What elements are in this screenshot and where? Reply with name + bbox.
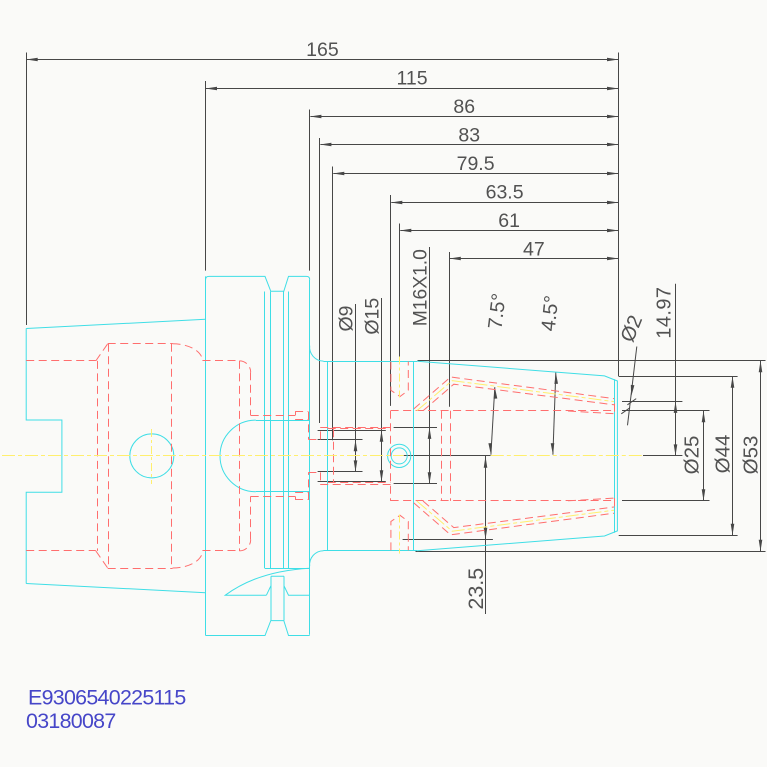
svg-text:86: 86 (453, 96, 475, 118)
svg-text:03180087: 03180087 (26, 709, 116, 733)
svg-text:Ø53: Ø53 (739, 436, 762, 475)
svg-text:63.5: 63.5 (486, 182, 524, 204)
svg-text:79.5: 79.5 (457, 153, 495, 175)
svg-text:61: 61 (498, 210, 520, 232)
svg-text:Ø44: Ø44 (712, 435, 735, 474)
svg-text:Ø9: Ø9 (335, 305, 357, 331)
svg-text:165: 165 (306, 39, 339, 61)
svg-text:Ø25: Ø25 (680, 436, 703, 475)
svg-text:23.5: 23.5 (464, 568, 488, 610)
svg-text:4.5°: 4.5° (538, 294, 564, 332)
svg-text:E9306540225115: E9306540225115 (28, 686, 186, 710)
svg-text:115: 115 (396, 68, 427, 90)
svg-text:83: 83 (458, 125, 480, 147)
svg-text:M16X1.0: M16X1.0 (411, 249, 432, 326)
svg-text:Ø2: Ø2 (617, 312, 647, 345)
svg-text:Ø15: Ø15 (362, 298, 384, 335)
svg-text:47: 47 (523, 239, 545, 261)
svg-text:14.97: 14.97 (654, 287, 676, 339)
svg-text:7.5°: 7.5° (484, 292, 510, 330)
